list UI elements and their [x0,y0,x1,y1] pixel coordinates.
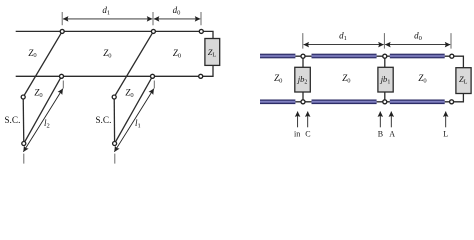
transmission line segment bottom 3 [390,100,445,105]
node C bottom [301,100,305,104]
svg-text:A: A [389,130,395,139]
stub 2 short-circuit bar [113,97,115,144]
stub 1 conductor A [23,31,62,97]
dimension l2 [23,81,63,164]
dimension d0 right [385,31,451,49]
svg-text:Z0: Z0 [418,73,426,84]
pointer C [307,112,309,128]
dimension d0 [154,5,201,25]
wire top conductor [16,31,213,38]
svg-text:Z0: Z0 [34,88,42,99]
susceptance jb2 [295,67,311,92]
wire bottom conductor [16,65,213,76]
svg-text:d1: d1 [339,31,347,42]
stub 1 short-circuit bar [22,97,25,144]
stub 2 conductor B [115,76,153,143]
stub 2 conductor A [114,31,153,97]
node stub1 sc bottom [22,142,26,146]
transmission line segment top 3 [390,54,445,59]
node A bottom [383,100,387,104]
node L top [450,54,454,58]
transmission line segment bottom 1 [260,100,295,105]
load Z_L [205,39,220,66]
node A top [383,54,387,58]
svg-text:Z0: Z0 [28,48,36,59]
svg-text:in: in [294,130,300,139]
dimension d1 right [303,31,385,49]
wire top rail thin [295,56,463,67]
susceptance jb1 [378,67,393,92]
svg-text:d0: d0 [414,31,422,42]
svg-text:Z0: Z0 [274,73,282,84]
wire bottom rail thin [295,93,463,101]
svg-text:l1: l1 [135,118,141,129]
svg-text:Z0: Z0 [125,88,133,99]
dimension d1 [62,5,153,25]
node stub2 sc bottom [113,142,117,146]
pointer A [390,112,392,128]
svg-text:d1: d1 [102,5,110,16]
svg-text:S.C.: S.C. [4,116,20,126]
pointer L [445,112,447,128]
stub jb2 stems [302,58,304,99]
svg-text:Z0: Z0 [342,73,350,84]
svg-text:C: C [305,130,310,139]
svg-text:l2: l2 [44,118,50,129]
node load bottom [199,74,203,78]
load Z_L right [456,68,471,94]
transmission line segment top 1 [260,54,295,59]
node stub1 top junction [60,29,64,33]
svg-text:S.C.: S.C. [95,116,111,126]
node load top [199,29,203,33]
svg-text:d0: d0 [173,5,181,16]
svg-text:Z0: Z0 [173,48,181,59]
pointer B [379,112,381,128]
pointer in [297,112,299,128]
node stub1 sc top [21,95,25,99]
node stub1 bottom junction [60,74,64,78]
node C top [301,54,305,58]
node stub2 sc top [112,95,116,99]
svg-text:Z0: Z0 [103,48,111,59]
node stub2 top junction [151,29,155,33]
dimension l1 [114,81,154,164]
node stub2 bottom junction [151,74,155,78]
transmission line segment top 2 [312,54,377,59]
stub 1 conductor B [24,76,62,143]
stub jb1 stems [384,58,386,99]
transmission line segment bottom 2 [312,100,377,105]
svg-text:L: L [443,130,448,139]
node L bottom [450,100,454,104]
svg-text:B: B [378,130,383,139]
